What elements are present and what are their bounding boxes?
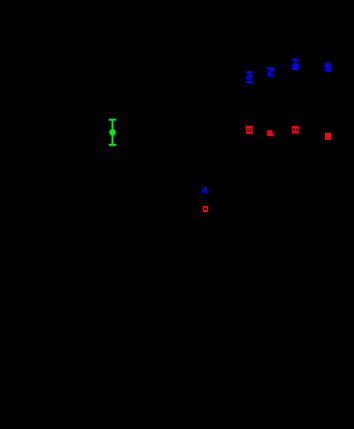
red cluster 4 xyxy=(325,133,331,140)
green errorbar point xyxy=(109,120,116,145)
red cluster 1 xyxy=(246,127,253,133)
blue cluster 2 xyxy=(267,68,274,75)
blue cluster 4 xyxy=(325,63,331,71)
legend blue marker xyxy=(202,187,208,193)
blue cluster 3 xyxy=(292,60,299,70)
legend red open square xyxy=(203,206,208,212)
blue cluster 1 xyxy=(246,72,253,82)
red cluster 2 xyxy=(267,130,274,136)
red cluster 3 xyxy=(292,127,299,132)
